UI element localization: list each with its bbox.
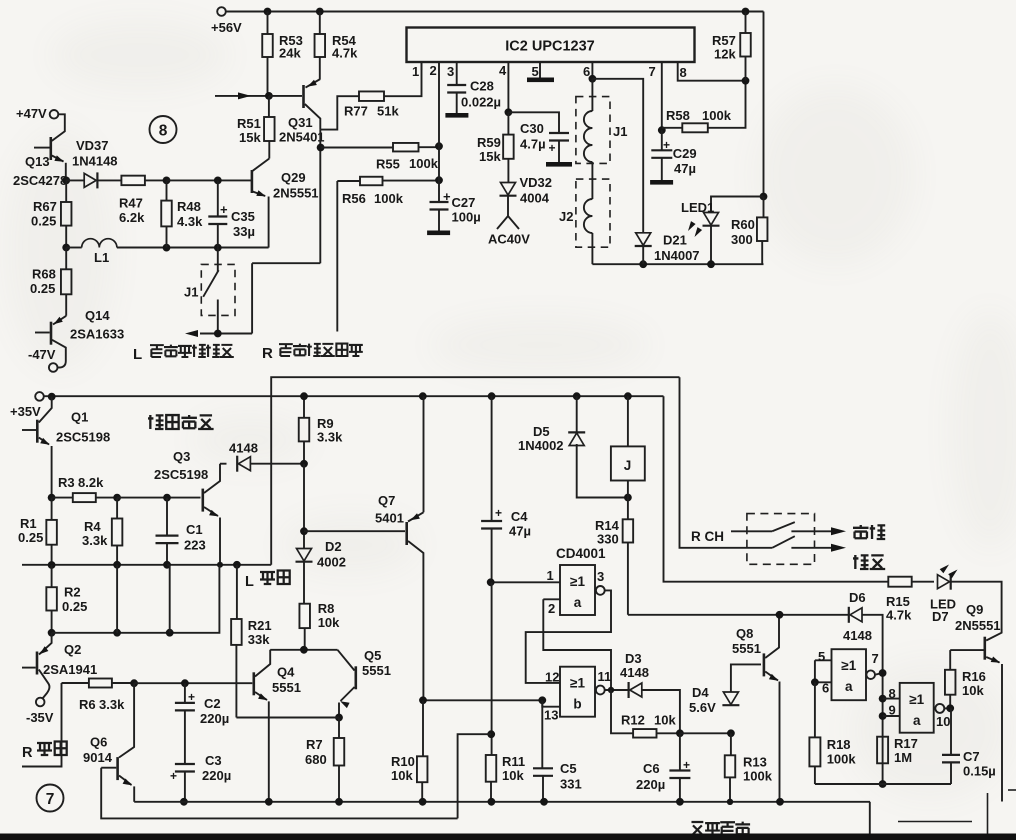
label overcurrent detect — [148, 415, 164, 429]
transistor Q4 — [253, 672, 256, 695]
pin7 bubble — [866, 670, 875, 679]
relay contact J1 — [217, 248, 219, 334]
wire Q6 base line — [101, 768, 457, 819]
terminal -35V — [36, 698, 45, 707]
node junction pin10 — [946, 704, 954, 712]
resistor R3 — [52, 497, 73, 499]
wire pin6 to D21 line — [592, 79, 643, 233]
svg-text:R55: R55 — [376, 157, 400, 172]
wire D3 to C6 node — [642, 690, 680, 733]
diode D21 — [636, 233, 651, 246]
svg-text:4148: 4148 — [229, 441, 258, 456]
pin2 wire — [543, 598, 560, 600]
svg-text:10k: 10k — [654, 713, 676, 728]
svg-text:0.25: 0.25 — [62, 599, 87, 614]
svg-text:a: a — [845, 679, 853, 694]
node junction C1 bottom — [163, 561, 171, 569]
node junction LED1 bottom — [707, 260, 715, 268]
svg-text:3: 3 — [597, 569, 604, 584]
node junction R9 top — [300, 392, 308, 400]
wire R9 to D2 — [303, 464, 305, 549]
svg-text:R2: R2 — [64, 585, 81, 600]
svg-text:R7: R7 — [306, 737, 323, 752]
bottom black bar — [0, 834, 1016, 840]
transistor Q31 — [302, 85, 305, 108]
diode D3 — [630, 683, 642, 697]
wire jumper R4 — [116, 565, 118, 633]
mid rail — [22, 564, 271, 566]
svg-text:9: 9 — [889, 703, 896, 718]
svg-text:3: 3 — [447, 64, 454, 79]
svg-text:12: 12 — [545, 670, 559, 685]
wire Q7 collector to pin13 — [423, 699, 542, 701]
node junction Q3 emitter — [217, 562, 223, 568]
label power-on delay — [690, 822, 705, 835]
svg-text:6: 6 — [822, 681, 829, 696]
svg-text:8: 8 — [889, 686, 896, 701]
wire Q31 input with arrow — [215, 95, 266, 97]
wire artifact right1 — [898, 821, 972, 823]
pin11 bubble — [596, 686, 605, 695]
terminal +47V — [50, 110, 59, 119]
capacitor C35 — [217, 180, 219, 247]
wire delay riser — [458, 734, 492, 818]
node junction pin8 — [879, 695, 887, 703]
capacitor C30 — [549, 133, 569, 141]
svg-text:R10: R10 — [391, 754, 415, 769]
svg-text:C29: C29 — [673, 146, 697, 161]
svg-text:8: 8 — [680, 65, 687, 80]
node junction pin9 — [879, 712, 887, 720]
svg-text:5551: 5551 — [272, 680, 301, 695]
pin9 wire — [883, 715, 900, 717]
diode VD37 — [66, 179, 84, 181]
svg-text:4: 4 — [499, 63, 507, 78]
pin 7 — [661, 62, 663, 130]
node junction C6 top — [676, 729, 684, 737]
node junction C35 top — [214, 177, 222, 185]
circled 7 — [37, 785, 64, 812]
wire +35V rail — [44, 395, 664, 397]
logic gate U1c — [832, 649, 867, 700]
svg-text:Q3: Q3 — [173, 449, 190, 464]
svg-text:15k: 15k — [479, 149, 501, 164]
svg-text:0.25: 0.25 — [30, 281, 55, 296]
svg-text:+: + — [220, 202, 228, 217]
node junction LED1 top — [760, 193, 768, 201]
ground C28 — [445, 113, 468, 118]
svg-text:VD32: VD32 — [520, 175, 553, 190]
svg-text:C5: C5 — [560, 761, 577, 776]
node junction R4 top — [113, 494, 121, 502]
node junction R2 bottom — [48, 629, 56, 637]
svg-text:C35: C35 — [231, 209, 255, 224]
svg-text:4.7k: 4.7k — [886, 608, 912, 623]
capacitor C4 — [491, 396, 493, 521]
svg-text:Q13: Q13 — [25, 154, 50, 169]
node junction Q7 base — [300, 527, 308, 535]
svg-text:R1: R1 — [20, 516, 37, 531]
svg-text:5.6V: 5.6V — [689, 700, 716, 715]
pin 1 — [421, 62, 423, 70]
node junction R17 bottom — [879, 780, 887, 788]
wire LED1 top — [711, 197, 764, 213]
svg-text:+: + — [443, 189, 451, 204]
resistor R54 — [319, 12, 321, 80]
node junction pin56 — [811, 678, 819, 686]
svg-text:D21: D21 — [663, 233, 687, 248]
capacitor C7 — [950, 708, 952, 755]
wire base Q31 — [269, 95, 302, 97]
svg-text:1: 1 — [412, 64, 419, 79]
resistor R59 — [507, 112, 509, 134]
wire R6 line to Q4 base — [134, 682, 252, 684]
svg-text:≥1: ≥1 — [841, 658, 856, 673]
resistor R4 — [116, 498, 118, 519]
wire VD37 to R47 — [97, 179, 121, 181]
svg-text:≥1: ≥1 — [570, 574, 585, 589]
node junction C1 top — [163, 494, 171, 502]
wire R21 to Q5 emitter — [236, 717, 339, 719]
node junction R57 bottom — [742, 77, 750, 85]
svg-text:C27: C27 — [452, 195, 476, 210]
node junction pin7 R58 — [658, 126, 666, 134]
svg-text:3.3k: 3.3k — [317, 430, 343, 445]
svg-text:47µ: 47µ — [674, 161, 696, 176]
wire RCH to switch — [731, 530, 772, 532]
wire gate b out to a in2 — [543, 599, 611, 690]
logic gate U1d — [900, 683, 934, 733]
node junction R9 bottom 4148 — [300, 460, 308, 468]
wire R mid-point line — [336, 181, 338, 332]
node junction C2 top — [181, 679, 189, 687]
pin 6 — [591, 62, 593, 79]
node junction R21 top — [233, 561, 241, 569]
resistor R17 — [877, 737, 888, 764]
svg-text:2SA1941: 2SA1941 — [43, 662, 97, 677]
svg-text:+: + — [663, 138, 670, 152]
resistor R11 — [486, 755, 497, 782]
svg-text:100µ: 100µ — [452, 210, 481, 225]
wire pin11 out — [605, 689, 629, 691]
transistor Q29 — [253, 159, 270, 171]
pin8 wire — [883, 698, 900, 700]
resistor R53 — [267, 12, 269, 96]
svg-text:5: 5 — [818, 649, 825, 664]
svg-text:-35V: -35V — [26, 710, 54, 725]
svg-text:Q9: Q9 — [966, 602, 983, 617]
capacitor C3 — [175, 764, 195, 772]
wire top rail right drop — [763, 12, 765, 197]
svg-text:4148: 4148 — [843, 628, 872, 643]
wire Q31 collector to R55 — [319, 130, 321, 264]
wire R2 line — [52, 565, 220, 633]
main bottom rail — [134, 801, 870, 803]
svg-text:VD37: VD37 — [76, 138, 109, 153]
node junction Q4 emitter rail — [265, 798, 273, 806]
svg-text:R11: R11 — [502, 754, 525, 769]
node junction D5 top — [573, 392, 581, 400]
svg-text:7: 7 — [872, 651, 879, 666]
transistor Q2 — [39, 633, 52, 655]
svg-text:33k: 33k — [248, 632, 270, 647]
svg-text:+: + — [188, 690, 195, 704]
node junction R55 right pin2 — [435, 142, 443, 150]
svg-text:D7: D7 — [932, 609, 949, 624]
svg-text:10k: 10k — [962, 683, 984, 698]
node junction Q13 emitter — [62, 177, 70, 185]
svg-text:5: 5 — [532, 64, 539, 79]
node junction J top — [624, 392, 632, 400]
node junction D3 R12 crossref — [608, 687, 614, 693]
svg-text:8: 8 — [159, 123, 168, 140]
node junction R8 bottom — [300, 646, 308, 654]
resistor R60 — [757, 217, 768, 241]
svg-text:5401: 5401 — [375, 511, 404, 526]
resistor R1 — [51, 498, 53, 520]
svg-text:4.7k: 4.7k — [332, 46, 358, 61]
svg-text:47µ: 47µ — [509, 524, 531, 539]
node junction R14 top — [624, 494, 632, 502]
svg-text:2N5401: 2N5401 — [279, 130, 325, 145]
svg-text:1N4002: 1N4002 — [518, 438, 564, 453]
node junction D21 bottom — [639, 260, 647, 268]
svg-text:R CH: R CH — [691, 529, 724, 544]
svg-text:R3: R3 — [58, 475, 75, 490]
wire pin4 to C30 — [508, 112, 559, 133]
arrow audio — [831, 527, 846, 535]
svg-text:Q31: Q31 — [288, 115, 313, 130]
svg-text:4148: 4148 — [620, 665, 649, 680]
svg-text:Q1: Q1 — [71, 410, 88, 425]
resistor R77 — [320, 63, 421, 130]
svg-text:C6: C6 — [643, 761, 660, 776]
svg-text:10: 10 — [936, 714, 950, 729]
svg-text:7: 7 — [46, 791, 55, 808]
svg-text:0.25: 0.25 — [31, 214, 56, 229]
svg-text:+35V: +35V — [10, 404, 41, 419]
node junction D4 bottom — [727, 729, 735, 737]
diode 4148 Q3 — [220, 463, 227, 465]
pin 4 — [507, 62, 509, 112]
svg-text:1N4148: 1N4148 — [72, 154, 118, 169]
svg-text:9014: 9014 — [83, 750, 113, 765]
capacitor C29 — [661, 130, 663, 150]
svg-text:J1: J1 — [184, 285, 198, 300]
resistor R55 — [321, 146, 439, 148]
svg-text:2: 2 — [548, 601, 555, 616]
node junction delay tap — [487, 730, 495, 738]
svg-text:J1: J1 — [613, 124, 627, 139]
svg-text:R47: R47 — [119, 196, 143, 211]
svg-text:2N5551: 2N5551 — [955, 618, 1001, 633]
node junction C3 bottom — [180, 798, 188, 806]
svg-text:R77: R77 — [344, 104, 368, 119]
svg-text:7: 7 — [649, 64, 656, 79]
svg-text:3.3k: 3.3k — [82, 533, 108, 548]
wire R sample input — [22, 683, 62, 767]
wire rail to R15 line — [664, 396, 889, 582]
svg-text:R16: R16 — [962, 669, 986, 684]
wire L output — [200, 263, 320, 333]
ground C29 — [650, 180, 673, 185]
svg-text:5551: 5551 — [732, 641, 761, 656]
svg-text:L1: L1 — [94, 250, 109, 265]
svg-text:Q14: Q14 — [85, 308, 110, 323]
svg-text:4.3k: 4.3k — [177, 214, 203, 229]
wire jumper C1 — [167, 565, 170, 633]
node junction Q7 emitter rail — [419, 392, 427, 400]
svg-text:2: 2 — [430, 63, 437, 78]
svg-text:4002: 4002 — [317, 555, 346, 570]
svg-text:C1: C1 — [186, 522, 203, 537]
node junction R53 top — [264, 8, 272, 16]
svg-text:11: 11 — [598, 669, 612, 684]
svg-text:R48: R48 — [177, 199, 201, 214]
svg-text:-47V: -47V — [28, 347, 56, 362]
svg-text:R18: R18 — [827, 737, 851, 752]
svg-text:12k: 12k — [714, 47, 736, 62]
svg-text:C7: C7 — [963, 749, 980, 764]
wire gate a out to b in12 — [526, 590, 611, 683]
pin 3 — [456, 62, 458, 84]
svg-text:R: R — [22, 745, 33, 761]
svg-text:5551: 5551 — [362, 663, 391, 678]
svg-text:6.2k: 6.2k — [119, 210, 145, 225]
node junction Q31 base — [265, 92, 273, 100]
node junction R6 Q6 — [130, 679, 138, 687]
resistor R67 — [65, 180, 67, 202]
node junction C4 top — [488, 392, 496, 400]
svg-text:3.3k: 3.3k — [99, 697, 125, 712]
ground C30 — [546, 162, 572, 167]
transistor Q7 — [304, 530, 405, 532]
svg-text:+47V: +47V — [16, 106, 47, 121]
node junction R47 right — [163, 177, 171, 185]
svg-text:1: 1 — [547, 568, 554, 583]
svg-text:R13: R13 — [743, 755, 767, 770]
pin13 wire — [542, 700, 560, 706]
pin3 bubble — [596, 586, 605, 595]
wire R14 bottom line — [628, 614, 849, 616]
svg-text:33µ: 33µ — [233, 224, 255, 239]
terminal -47V — [49, 363, 58, 372]
svg-text:R68: R68 — [32, 267, 56, 282]
wire Q9 base — [950, 649, 983, 651]
diode D6 — [850, 608, 862, 622]
capacitor C5 — [541, 700, 543, 768]
pin5 wire — [815, 660, 832, 682]
diode VD32 — [501, 183, 516, 196]
capacitor C2 — [184, 683, 186, 703]
node junction R57 top — [742, 8, 750, 16]
wire D4 top to Q8 base — [731, 664, 761, 692]
pin10 bubble — [935, 704, 944, 713]
svg-text:R60: R60 — [731, 217, 755, 232]
svg-text:C3: C3 — [205, 753, 222, 768]
AC40V symbol — [497, 195, 519, 229]
resistor R15 — [888, 577, 911, 587]
transistor Q6 — [119, 683, 134, 757]
svg-text:+: + — [549, 141, 556, 155]
node junction pin7 D6 — [879, 669, 887, 677]
svg-text:Q4: Q4 — [277, 665, 295, 680]
wire artifact right2 — [987, 793, 989, 834]
svg-text:0.25: 0.25 — [18, 530, 43, 545]
switch box dashed — [747, 514, 815, 565]
svg-text:D4: D4 — [692, 685, 709, 700]
switch upper contact — [772, 522, 831, 531]
svg-text:680: 680 — [305, 752, 327, 767]
terminal +56V — [217, 7, 226, 16]
svg-text:J: J — [624, 458, 632, 473]
wire Q4 Q5 collectors — [270, 649, 337, 651]
resistor R18 — [814, 682, 816, 737]
wire D6 to pin7 node — [862, 615, 882, 784]
capacitor C27 — [438, 210, 440, 231]
resistor R58 — [662, 127, 683, 129]
node junction C35 bottom — [214, 244, 222, 252]
transistor Q3 — [202, 489, 205, 512]
svg-text:1N4007: 1N4007 — [654, 248, 700, 263]
relay J box — [627, 396, 629, 446]
node junction jumper2 — [166, 629, 174, 637]
svg-text:R58: R58 — [666, 108, 690, 123]
svg-text:R17: R17 — [894, 736, 918, 751]
LED LED1 — [704, 213, 719, 226]
transistor Q9 — [983, 637, 986, 660]
resistor R51 — [268, 96, 270, 159]
wire R18 R17 C7 line — [815, 783, 951, 785]
resistor R13 — [730, 733, 732, 755]
svg-text:R59: R59 — [477, 135, 501, 150]
resistor R56 — [337, 180, 439, 182]
svg-text:a: a — [913, 713, 921, 728]
svg-text:R51: R51 — [237, 116, 261, 131]
wire Q7 emitter — [423, 396, 425, 512]
svg-text:C30: C30 — [520, 121, 544, 136]
capacitor C6 — [679, 733, 681, 770]
terminal +35V — [35, 392, 44, 401]
svg-text:≥1: ≥1 — [909, 692, 924, 707]
wire L sample riser — [271, 377, 679, 565]
svg-text:AC40V: AC40V — [488, 232, 530, 247]
node junction R10 bottom — [419, 798, 427, 806]
node junction pin1 — [487, 578, 495, 586]
node junction jumper1 — [113, 629, 121, 637]
svg-text:220µ: 220µ — [200, 711, 229, 726]
transistor Q8 — [763, 653, 766, 676]
ground pin5 — [527, 78, 554, 83]
wire R11 riser — [491, 582, 493, 755]
wire rail end drop — [869, 802, 871, 836]
capacitor C1 — [166, 498, 168, 536]
svg-text:R56: R56 — [342, 191, 366, 206]
node junction R13 bottom — [727, 799, 733, 805]
resistor R10 — [422, 700, 424, 756]
svg-text:R4: R4 — [84, 519, 101, 534]
wire relay bottom loop — [592, 263, 763, 265]
svg-text:CD4001: CD4001 — [556, 546, 606, 561]
node junction L1 left — [62, 244, 70, 252]
svg-text:D3: D3 — [625, 651, 642, 666]
svg-text:Q7: Q7 — [378, 493, 395, 508]
node junction pin13 C5 — [538, 696, 546, 704]
svg-text:220µ: 220µ — [636, 777, 665, 792]
node junction Q8 emitter rail — [776, 798, 784, 806]
svg-text:10k: 10k — [391, 768, 413, 783]
wire pin7 out — [875, 673, 883, 675]
